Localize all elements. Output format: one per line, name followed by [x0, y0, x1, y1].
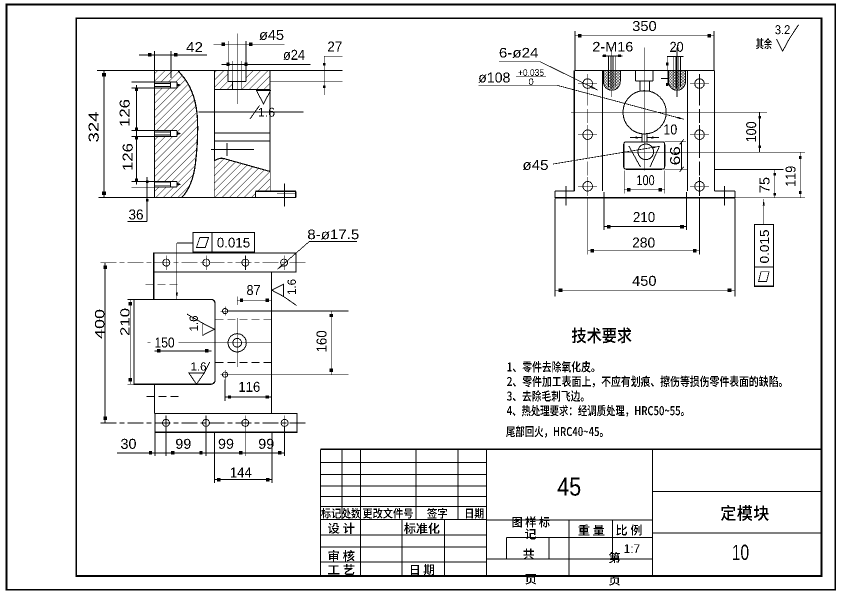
- ext160 top: [228, 310, 348, 312]
- centerline phi45: [624, 151, 805, 153]
- text qiyu: [756, 38, 772, 49]
- tb tuyangbiao: [512, 516, 549, 527]
- hole cross: [690, 134, 709, 136]
- small hole top: [223, 309, 228, 314]
- tb zhongliang: [578, 524, 604, 535]
- dim 400 arrows: [103, 265, 107, 269]
- body left upper: [153, 272, 155, 300]
- dim 99b text: [219, 439, 234, 449]
- hole phi24: [583, 130, 593, 140]
- tb shenhe: [328, 550, 354, 561]
- strip hole bottom: [242, 419, 249, 426]
- dim 280 text: [633, 237, 655, 247]
- tb bili: [616, 524, 641, 535]
- tech title: [572, 327, 632, 343]
- dim 87 line: [237, 299, 271, 301]
- tb gong: [523, 548, 534, 559]
- dim phi45 arrows: [222, 43, 225, 46]
- wedge hatch: [215, 158, 270, 197]
- screw shaft lines: [154, 131, 170, 133]
- dim 100b line: [624, 189, 665, 191]
- finish mark3 text: [287, 280, 295, 295]
- tb ji: [525, 529, 536, 540]
- screw tip: [177, 83, 182, 87]
- tb dingmokuai: [721, 505, 769, 521]
- tb gongyi: [328, 564, 354, 575]
- tb header chushu: [342, 508, 360, 519]
- tb header genggai: [363, 508, 413, 519]
- chain ext lines: [154, 432, 156, 456]
- hole cross: [578, 83, 597, 85]
- hole phi24: [695, 182, 705, 192]
- dim 27 text: [328, 41, 342, 51]
- text 8-phi17.5: [308, 229, 359, 239]
- text 20: [670, 42, 683, 52]
- dim 2-M16 line: [602, 55, 623, 57]
- dim 400 line: [104, 263, 106, 423]
- dim 66 line: [681, 142, 683, 169]
- dim 160 line: [330, 311, 332, 375]
- strip hole bottom: [281, 419, 288, 426]
- dim 324 line: [103, 70, 105, 197]
- finish leader line: [198, 111, 303, 113]
- dim 324 text: [89, 112, 99, 142]
- strip hole top: [281, 259, 288, 266]
- dim 119 text: [785, 166, 795, 185]
- flatness symbol v3: [197, 237, 209, 247]
- dim 42 ext: [153, 51, 155, 70]
- view2 bottom ext right: [735, 197, 805, 199]
- strip bottom: [155, 414, 297, 433]
- dim 100r line: [759, 112, 761, 152]
- tb biaozhunhua: [404, 523, 439, 534]
- dim 400 text: [95, 310, 105, 339]
- dim 450 ext: [554, 199, 556, 297]
- band outline: [215, 89, 270, 91]
- tb header qianzi: [427, 508, 447, 519]
- dim 42 text: [186, 42, 202, 52]
- text phi45v2: [523, 160, 548, 170]
- toprow centerline: [101, 262, 306, 264]
- dim phi45 text: [259, 30, 283, 40]
- leader 6-phi24: [499, 61, 540, 63]
- dim 144 line: [215, 479, 273, 481]
- hole cross: [578, 134, 597, 136]
- view2 inner verticals: [601, 70, 603, 191]
- strip hole top: [163, 259, 170, 266]
- foot outline: [255, 191, 257, 197]
- hole column centerline L: [587, 74, 589, 191]
- hole column centerline R: [699, 74, 701, 191]
- dim 87 arrows: [240, 299, 243, 302]
- dim 66 ext: [665, 141, 686, 143]
- dim 210 line: [604, 226, 687, 228]
- counterbore notch: [228, 70, 246, 81]
- hole walls: [231, 81, 233, 89]
- dim 20: [667, 55, 683, 57]
- dim 100b text: [637, 175, 654, 185]
- pocket rect: [624, 142, 665, 169]
- tol frac line: [516, 76, 546, 78]
- hidden line ul: [145, 284, 180, 286]
- screw tip: [177, 183, 182, 187]
- foot tick right: [724, 186, 726, 206]
- finish mark1 text: [189, 316, 197, 331]
- dim 30 text: [121, 439, 136, 449]
- ring centerline h: [148, 342, 151, 344]
- view2 top edge: [574, 69, 714, 71]
- hidden line ll: [147, 395, 181, 397]
- dim 10 arrows: [635, 137, 642, 139]
- inner line1: [215, 132, 270, 134]
- tech line1: [508, 361, 595, 373]
- dim 450 text: [632, 276, 655, 286]
- ring centerline v: [236, 297, 238, 306]
- hole gap: [232, 81, 241, 89]
- screw ext lines: [132, 81, 155, 83]
- chain arrows: [149, 451, 152, 454]
- hole cross: [690, 185, 709, 187]
- flatness symbol: [759, 272, 769, 282]
- strip top: [154, 253, 296, 272]
- tech line3: [507, 390, 584, 402]
- screw ext lines: [132, 180, 155, 182]
- dim 150 line: [154, 350, 211, 352]
- pocket slants: [629, 146, 641, 167]
- dim 144 arrows: [217, 478, 220, 481]
- dim 450 arrows: [559, 288, 563, 292]
- dim 99a text: [176, 439, 191, 449]
- tb sheji: [328, 523, 355, 534]
- dim 210 arrows: [607, 225, 611, 229]
- dim 160 arrows: [330, 314, 333, 317]
- centerline v: [644, 48, 646, 171]
- dim 42 arrows: [148, 53, 151, 56]
- dim 116 arrows: [228, 395, 231, 398]
- dim 126a text: [120, 100, 130, 126]
- neck lines: [641, 134, 643, 142]
- dim 116 ext: [224, 380, 226, 401]
- dim 210v3 arrows: [129, 302, 132, 305]
- dim phi24 line: [222, 63, 311, 65]
- screw shaft lines: [154, 83, 170, 85]
- small hole bottom: [223, 372, 228, 377]
- center ring: [228, 334, 246, 352]
- surface check: [776, 25, 798, 51]
- tb di: [609, 552, 620, 563]
- hidden line r2: [216, 361, 272, 363]
- screw outline: [154, 180, 177, 182]
- strip hole top: [242, 259, 249, 266]
- dim 66 text: [670, 147, 680, 164]
- dim 210v3 line: [129, 299, 131, 384]
- dim 36 text: [129, 209, 143, 219]
- dim 210 text: [634, 212, 655, 222]
- top slot narrow: [639, 81, 641, 91]
- text 6-phi24: [500, 48, 538, 58]
- flatness text v3: [217, 238, 249, 248]
- tb header biaoji: [321, 508, 341, 519]
- wedge top edge: [215, 158, 270, 171]
- small cross: [211, 149, 254, 151]
- hole cross: [690, 83, 709, 85]
- view2 left edge: [573, 70, 575, 191]
- dim 75 text: [760, 178, 770, 193]
- dim 150 arrows: [157, 349, 160, 352]
- hole phi24: [695, 79, 705, 89]
- dim 116 line: [225, 396, 272, 398]
- ext phi45 right: [245, 41, 247, 70]
- view1 right top band hatch: [215, 70, 270, 89]
- centerline h: [571, 111, 767, 113]
- pocket: [134, 299, 215, 384]
- tb 45: [558, 478, 581, 496]
- dim 99c text: [259, 439, 274, 449]
- view2 feet: [555, 190, 574, 192]
- ext phi24 left: [231, 61, 233, 81]
- tb header riqi: [466, 508, 484, 519]
- dim 280 arrows: [591, 249, 595, 253]
- finish mark2: [189, 373, 204, 384]
- flatness frame: [755, 224, 774, 286]
- dim chain line: [117, 452, 285, 454]
- flatness frame v3: [193, 232, 255, 252]
- view2 right edge: [714, 70, 716, 191]
- dim 116 text: [239, 382, 259, 392]
- tech line4: [507, 405, 684, 417]
- dim 210v3 text: [120, 309, 130, 335]
- M16 right hatch: [669, 70, 686, 90]
- M16 left threads: [607, 56, 609, 87]
- screw tip: [177, 132, 182, 136]
- text tol lower: [529, 78, 534, 85]
- tech line2: [507, 376, 782, 388]
- dim 350 ext: [574, 31, 576, 70]
- screw slot: [154, 181, 177, 187]
- dim 10 text: [664, 124, 677, 134]
- botrow centerline: [101, 422, 307, 424]
- body right: [271, 272, 273, 414]
- screw outline: [154, 81, 177, 83]
- dim 119 arrows: [799, 156, 802, 159]
- finish mark2 text: [191, 362, 206, 370]
- finish mark view1: [257, 91, 271, 105]
- screw shaft lines: [154, 182, 170, 184]
- screw outline: [154, 130, 177, 132]
- circle phi108: [623, 91, 666, 134]
- dim 350 arrows: [578, 34, 582, 38]
- dim 324 arrows: [102, 73, 106, 77]
- notch bottom: [228, 80, 246, 82]
- tech line5: [506, 426, 603, 438]
- view1 bottom edge: [99, 197, 296, 199]
- tb ye2: [609, 575, 620, 586]
- screw slot: [154, 131, 177, 137]
- dim 100r arrows: [758, 116, 761, 119]
- hidden line r1: [216, 319, 272, 321]
- hole cross: [578, 185, 597, 187]
- leader phi108: [479, 84, 557, 86]
- dim 100b arrows: [627, 188, 630, 191]
- text 2-M16: [593, 42, 633, 52]
- hole phi24: [695, 130, 705, 140]
- flatness text: [760, 230, 769, 263]
- dim phi45 line: [214, 43, 285, 45]
- dim 280 line: [588, 250, 700, 252]
- tb riqi2: [411, 564, 434, 575]
- dim 144 ext: [214, 433, 216, 483]
- tb 10: [733, 545, 748, 561]
- dim 150 text: [156, 337, 175, 347]
- view2 bottom edge: [555, 197, 735, 199]
- foot tick left: [565, 186, 567, 206]
- dim 100b ext: [623, 171, 625, 194]
- dim 36: [146, 177, 148, 222]
- dim 75 line: [774, 169, 776, 197]
- dim 87 text: [247, 285, 260, 295]
- flatness leader: [763, 199, 765, 224]
- flatness leader v3: [177, 242, 193, 244]
- dim 210v3 ext: [128, 298, 135, 300]
- leader 8-phi17.5: [309, 240, 357, 242]
- ext160 bot: [228, 374, 348, 376]
- M16 left centerline: [611, 48, 613, 98]
- M16 left hatch: [603, 70, 620, 90]
- ext phi45 left: [227, 41, 229, 70]
- dim 450 line: [555, 289, 735, 291]
- hole phi24: [583, 182, 593, 192]
- dim 160 text: [316, 331, 326, 352]
- dim 126b text: [123, 144, 133, 170]
- hole phi24: [583, 79, 593, 89]
- view1 top edge: [97, 69, 343, 71]
- leader phi45: [553, 146, 659, 164]
- view1 left edge: [153, 70, 155, 197]
- strip hole top: [203, 259, 210, 266]
- dim 210 ext: [603, 192, 605, 230]
- strip hole bottom: [163, 419, 170, 426]
- ext phi24 right: [241, 61, 243, 81]
- screw ext lines: [132, 130, 155, 132]
- notch walls: [227, 70, 229, 81]
- top slot wide: [634, 70, 636, 80]
- dim 66 ticks: [680, 140, 684, 145]
- M16 right centerline: [676, 48, 678, 98]
- inner line2: [215, 140, 270, 142]
- dim 42 line: [139, 54, 207, 56]
- finish 1.6 text view1: [259, 108, 275, 117]
- dim 100r text: [746, 122, 756, 142]
- dim 144 text: [231, 467, 252, 477]
- screw slot: [154, 82, 177, 88]
- circle phi45: [638, 144, 654, 160]
- title block lines: [321, 448, 821, 450]
- body left lower: [154, 384, 156, 413]
- text tol upper: [518, 69, 543, 76]
- text 3.2: [775, 25, 790, 34]
- view1 right edges: [214, 70, 216, 197]
- dim phi24 text: [283, 50, 304, 60]
- tb 1:7: [625, 544, 640, 553]
- dim 126 arrows: [135, 88, 138, 91]
- finish mark1: [203, 323, 215, 335]
- dim 75 arrows: [774, 173, 777, 176]
- dim 119 line: [799, 152, 801, 198]
- dim 350 line: [575, 35, 714, 37]
- dim phi24 arrows: [226, 63, 229, 66]
- dim 27: [324, 55, 342, 57]
- dim 75 ext: [665, 168, 687, 170]
- centerline hole: [236, 34, 238, 105]
- foot center mark: [284, 184, 286, 207]
- finish mark3: [272, 284, 284, 296]
- dim 350 text: [633, 21, 656, 31]
- view1 left block hatch: [154, 70, 197, 197]
- dim 126 line: [136, 85, 138, 184]
- ext 27: [270, 80, 343, 82]
- strip hole bottom: [203, 419, 210, 426]
- text phi108: [479, 72, 510, 82]
- tb ye1: [525, 574, 536, 585]
- M16 right threads: [673, 56, 675, 87]
